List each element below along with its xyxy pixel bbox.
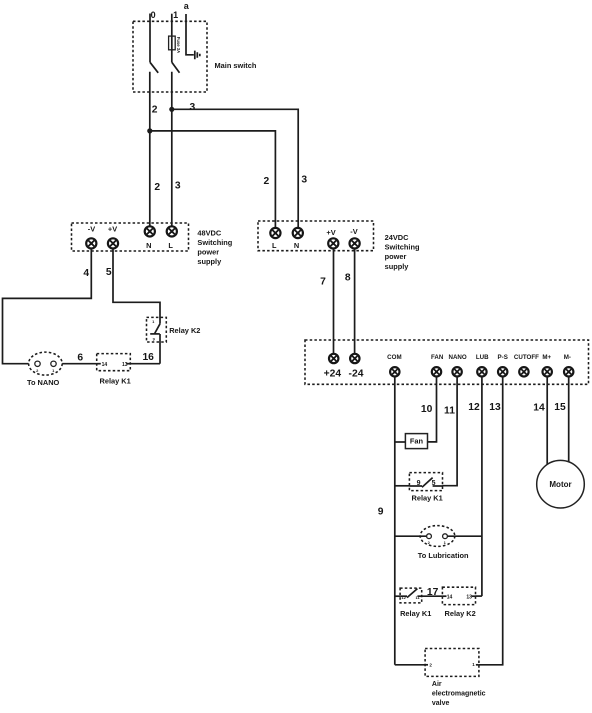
svg-text:5: 5 <box>106 267 112 278</box>
svg-text:14: 14 <box>533 403 545 414</box>
relay K1 contact stub right <box>433 485 443 487</box>
svg-text:COM: COM <box>387 354 401 361</box>
svg-text:Relay K1: Relay K1 <box>412 493 443 502</box>
svg-text:2: 2 <box>154 182 160 193</box>
svg-text:-V: -V <box>350 227 357 236</box>
svg-text:+24: +24 <box>324 368 342 379</box>
wire pole 1 middle <box>171 50 173 63</box>
wire relay K2 to node 16 <box>159 334 161 364</box>
terminal screw -24 <box>350 354 359 363</box>
wire 12 (LUB) <box>481 376 483 596</box>
svg-text:+V: +V <box>326 228 335 237</box>
wire branch 3 to 24VDC N <box>172 109 298 228</box>
wire 13 (P-S) <box>479 376 503 664</box>
valve stub right <box>476 664 479 666</box>
switch blade pole 0 <box>150 62 158 73</box>
svg-text:17: 17 <box>427 587 439 598</box>
svg-text:M-: M- <box>564 354 571 361</box>
svg-text:9: 9 <box>378 507 384 518</box>
wire COM to relay K1 contact <box>395 485 410 487</box>
svg-text:valve: valve <box>432 700 450 707</box>
svg-text:CUTOFF: CUTOFF <box>514 354 539 361</box>
fuse Fuse 3A <box>169 36 176 50</box>
relay K2 coil enclosure <box>442 587 475 604</box>
terminal screw -V (48VDC) <box>86 238 96 248</box>
svg-text:To NANO: To NANO <box>27 378 60 387</box>
relay K1 blade <box>407 589 417 598</box>
svg-text:To Lubrication: To Lubrication <box>418 551 469 560</box>
terminal screw P-S <box>498 367 507 376</box>
svg-text:N: N <box>146 241 151 250</box>
svg-text:14: 14 <box>447 595 453 601</box>
wire 9 (COM bus) <box>394 376 396 664</box>
svg-text:Relay K1: Relay K1 <box>100 377 131 386</box>
relay K2 blade <box>155 324 160 334</box>
To Lubrication connector <box>420 526 455 547</box>
svg-text:0: 0 <box>151 10 156 20</box>
terminal screw L (48VDC) <box>167 226 177 236</box>
fan <box>405 434 427 449</box>
To NANO pin 2 <box>35 361 40 366</box>
svg-text:1: 1 <box>173 10 178 20</box>
air electromagnetic valve enclosure <box>425 649 479 677</box>
terminal screw -V (24VDC) <box>350 238 360 248</box>
wire 15 (M-) <box>568 376 570 462</box>
terminal strip enclosure <box>305 340 589 384</box>
wire pole 1 upper <box>171 14 173 36</box>
wire 8 <box>354 249 356 354</box>
To Lubrication pin 2 <box>427 534 432 539</box>
terminal screw L (24VDC) <box>270 228 280 238</box>
svg-text:Relay K2: Relay K2 <box>169 326 200 335</box>
svg-text:supply: supply <box>385 262 410 271</box>
To NANO pin 1 <box>51 361 56 366</box>
main switch enclosure <box>133 21 207 92</box>
svg-text:L: L <box>168 241 173 250</box>
wire pole 0 upper <box>149 14 151 63</box>
24VDC supply enclosure <box>258 221 374 251</box>
svg-text:LUB: LUB <box>476 354 489 361</box>
svg-text:power: power <box>197 247 219 256</box>
terminal screw M- <box>564 367 573 376</box>
wire pole 0 lower <box>149 72 151 227</box>
svg-text:-V: -V <box>88 225 95 234</box>
svg-text:-24: -24 <box>349 368 364 379</box>
svg-text:12: 12 <box>401 595 406 600</box>
terminal screw LUB <box>477 367 486 376</box>
svg-text:13: 13 <box>466 595 472 601</box>
svg-text:16: 16 <box>142 352 154 363</box>
svg-text:48VDC: 48VDC <box>197 229 221 238</box>
terminal screw +24 <box>329 354 338 363</box>
terminal screw M+ <box>543 367 552 376</box>
svg-text:+V: +V <box>108 225 117 234</box>
wire 6 <box>62 363 96 365</box>
wire 4 <box>3 249 92 364</box>
To NANO connector <box>29 352 63 375</box>
relay K1 stub left <box>97 363 101 365</box>
wire COM to valve <box>395 664 425 666</box>
svg-text:N: N <box>294 241 299 250</box>
svg-text:3: 3 <box>301 175 307 186</box>
relay K1 stub right <box>126 363 130 365</box>
svg-text:10: 10 <box>421 404 433 415</box>
svg-text:NANO: NANO <box>448 354 466 361</box>
relay K1 contact enclosure (valve circuit) <box>400 588 422 603</box>
svg-text:Air: Air <box>432 681 442 688</box>
To Lubrication pin 1 <box>443 534 448 539</box>
svg-text:Main switch: Main switch <box>215 61 257 70</box>
relay K1 stub left <box>400 595 407 597</box>
svg-text:2: 2 <box>152 105 158 116</box>
48VDC supply enclosure <box>72 223 189 251</box>
svg-text:FAN: FAN <box>431 354 444 361</box>
valve stub left <box>425 664 428 666</box>
wire 5 <box>113 249 160 324</box>
svg-text:Fuse 3A: Fuse 3A <box>176 37 181 53</box>
relay K1 contact stub left <box>409 485 422 487</box>
relay K2 stub left <box>442 595 446 597</box>
svg-text:L: L <box>272 241 277 250</box>
svg-text:8: 8 <box>345 273 351 284</box>
relay K2 stub right <box>472 595 476 597</box>
switch blade pole 1 <box>172 62 180 73</box>
relay K1 contact enclosure (fan circuit) <box>409 473 442 491</box>
wire 7 <box>333 249 335 354</box>
relay K1 blade <box>422 478 433 488</box>
svg-text:power: power <box>385 252 407 261</box>
wire COM to relay K1 contact (valve circuit) <box>395 595 400 597</box>
wire COM to fan <box>395 441 406 443</box>
svg-text:Switching: Switching <box>385 243 420 252</box>
svg-text:12: 12 <box>468 402 480 413</box>
svg-text:Motor: Motor <box>549 480 571 489</box>
svg-text:Relay K1: Relay K1 <box>400 609 431 618</box>
svg-text:15: 15 <box>554 402 566 413</box>
wire 14 (M+) <box>546 376 548 464</box>
svg-text:7: 7 <box>320 277 326 288</box>
wire branch 2 to 24VDC L <box>150 131 276 228</box>
terminal screw N (48VDC) <box>145 226 155 236</box>
junction on line 2 <box>147 128 152 133</box>
svg-text:2: 2 <box>264 176 270 187</box>
svg-text:Relay K2: Relay K2 <box>445 609 476 618</box>
wire pole 1 lower <box>171 72 173 227</box>
relay K1 coil enclosure (left) <box>97 354 131 371</box>
wire 10 (FAN) <box>428 376 437 442</box>
svg-text:24VDC: 24VDC <box>385 233 409 242</box>
svg-text:6: 6 <box>77 353 83 364</box>
terminal screw FAN <box>432 367 441 376</box>
wire relay K2 to LUB bus <box>476 595 482 597</box>
wire 17 <box>422 595 443 597</box>
ground <box>195 51 200 60</box>
junction on line 3 <box>169 107 174 112</box>
wire earth branch <box>186 14 194 55</box>
relay K1 stub right <box>417 595 421 597</box>
svg-text:9: 9 <box>417 480 421 487</box>
wire 11 (NANO) <box>443 376 458 485</box>
motor <box>537 460 585 508</box>
terminal screw NANO <box>452 367 461 376</box>
svg-text:4: 4 <box>83 268 89 279</box>
terminal screw +V (48VDC) <box>108 238 118 248</box>
svg-text:3: 3 <box>190 102 196 113</box>
relay K2 contact enclosure <box>147 317 167 342</box>
terminal screw COM <box>390 367 399 376</box>
svg-text:14: 14 <box>102 362 108 368</box>
svg-text:Switching: Switching <box>197 238 232 247</box>
terminal screw N (24VDC) <box>293 228 303 238</box>
svg-text:M+: M+ <box>542 354 551 361</box>
svg-text:P-S: P-S <box>498 354 508 361</box>
svg-text:3: 3 <box>175 181 181 192</box>
terminal screw CUTOFF <box>519 367 528 376</box>
wire lubrication to LUB bus <box>447 535 482 537</box>
svg-text:13: 13 <box>489 402 501 413</box>
svg-text:Fan: Fan <box>410 436 424 445</box>
svg-text:electromagnetic: electromagnetic <box>432 691 486 698</box>
svg-text:supply: supply <box>197 257 222 266</box>
relay K2 contact bar <box>150 333 160 335</box>
svg-text:11: 11 <box>444 406 455 417</box>
wire COM to lubrication <box>395 535 427 537</box>
terminal screw +V (24VDC) <box>328 238 338 248</box>
wire 16 <box>130 363 160 365</box>
